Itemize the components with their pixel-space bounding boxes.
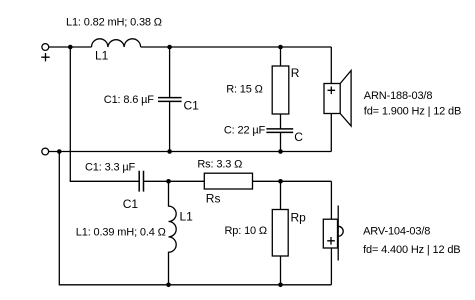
wire woofer lower lead — [330, 114, 332, 152]
capacitor C1 (bottom) — [139, 171, 143, 192]
node A junction dot — [68, 45, 73, 50]
wire R to C — [280, 114, 282, 129]
wire Rp lower lead — [280, 256, 282, 285]
svg-text:C: C — [294, 130, 303, 144]
wire C lower lead — [280, 133, 282, 152]
svg-text:Rs: Rs — [206, 192, 221, 206]
node junction dot mid — [166, 179, 171, 184]
node junction dot L1 bottom — [166, 283, 171, 288]
resistor Rs — [204, 173, 252, 189]
svg-text:C1: C1 — [184, 99, 200, 113]
svg-text:Rs: 3.3 Ω: Rs: 3.3 Ω — [197, 158, 242, 170]
svg-text:C1: 3.3 µF: C1: 3.3 µF — [85, 162, 136, 174]
wire Rs to tweeter corner — [253, 180, 332, 182]
svg-text:R: R — [291, 66, 300, 80]
speaker ARN woofer — [324, 71, 351, 127]
capacitor C — [266, 129, 293, 133]
resistor R — [272, 66, 289, 114]
terminal T2 — [42, 148, 49, 155]
wire C1 upper lead — [169, 47, 171, 97]
svg-text:Rp: 10 Ω: Rp: 10 Ω — [225, 225, 268, 237]
node junction dot Rp top — [278, 179, 283, 184]
wire tweeter upper lead — [330, 181, 332, 219]
wire highpass feed — [70, 47, 139, 181]
inductor L1 (top) — [92, 39, 141, 47]
node junction dot RC bottom — [278, 149, 283, 154]
svg-text:C1: 8.6 µF: C1: 8.6 µF — [104, 94, 155, 106]
wire top rail to speaker corner — [141, 46, 332, 48]
node junction dot C1 top — [167, 45, 172, 50]
svg-text:C: 22 µF: C: 22 µF — [224, 125, 266, 137]
terminal T1 plus — [41, 44, 49, 62]
wire bottom rail — [59, 152, 331, 285]
svg-text:L1: L1 — [95, 49, 109, 63]
wire R upper lead — [280, 47, 282, 66]
inductor L1 (bottom) — [169, 181, 177, 284]
node junction dot left — [57, 149, 62, 154]
capacitor C1 (top) — [158, 98, 182, 102]
wire woofer upper lead — [330, 47, 332, 84]
svg-text:Rp: Rp — [291, 211, 307, 225]
svg-text:L1: 0.39 mH; 0.4 Ω: L1: 0.39 mH; 0.4 Ω — [76, 227, 166, 239]
speaker ARV tweeter — [323, 206, 343, 261]
svg-text:C1: C1 — [123, 197, 139, 211]
wire cap to Rs — [144, 180, 205, 182]
svg-text:fd= 1.900 Hz | 12 dB: fd= 1.900 Hz | 12 dB — [364, 106, 461, 118]
svg-text:ARV-104-03/8: ARV-104-03/8 — [363, 226, 430, 238]
wire tweeter lower lead — [330, 248, 332, 285]
node junction dot R top — [278, 45, 283, 50]
svg-text:R: 15 Ω: R: 15 Ω — [226, 84, 263, 96]
resistor Rp — [272, 210, 288, 257]
node junction dot Rp bottom — [278, 283, 283, 288]
svg-text:fd= 4.400 Hz | 12 dB: fd= 4.400 Hz | 12 dB — [363, 244, 460, 256]
node junction dot C1 bottom — [167, 149, 172, 154]
svg-text:L1: 0.82 mH; 0.38 Ω: L1: 0.82 mH; 0.38 Ω — [66, 17, 162, 29]
svg-text:L1: L1 — [180, 210, 194, 224]
wire minus rail — [49, 151, 332, 153]
svg-text:ARN-188-03/8: ARN-188-03/8 — [364, 90, 433, 102]
wire top rail — [49, 46, 92, 48]
wire C1 lower lead — [169, 102, 171, 152]
wire Rp upper lead — [280, 181, 282, 209]
